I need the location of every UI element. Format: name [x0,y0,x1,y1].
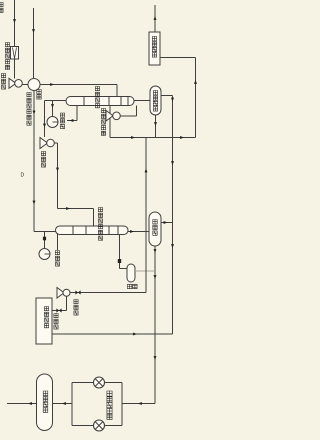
svg-text:D: D [21,173,25,179]
